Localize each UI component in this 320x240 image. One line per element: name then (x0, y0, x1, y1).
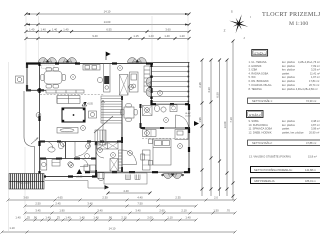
svg-text:2.45: 2.45 (55, 202, 61, 206)
svg-text:1.40: 1.40 (40, 27, 46, 31)
svg-text:ETAŽA 2: ETAŽA 2 (249, 112, 261, 117)
svg-text:1.40: 1.40 (29, 27, 35, 31)
svg-text:8×17,2/28: 8×17,2/28 (18, 180, 31, 184)
svg-text:4. RADNA SOBA: 4. RADNA SOBA (249, 71, 269, 75)
svg-text:±0,00: ±0,00 (76, 176, 83, 179)
svg-text:.70: .70 (226, 209, 230, 213)
svg-text:+0,05: +0,05 (87, 104, 94, 106)
svg-text:2.50: 2.50 (35, 202, 41, 206)
svg-text:1.40: 1.40 (79, 216, 85, 220)
svg-text:ker. pločice: ker. pločice (282, 64, 296, 68)
svg-text:1.50: 1.50 (213, 209, 219, 213)
svg-text:2.60: 2.60 (159, 209, 165, 213)
svg-text:3. IZBA: 3. IZBA (249, 68, 258, 72)
svg-text:2.35: 2.35 (175, 196, 181, 200)
svg-text:parket: parket (282, 127, 289, 131)
svg-text:20,74 m²: 20,74 m² (309, 83, 319, 87)
svg-text:ETAŽA 1: ETAŽA 1 (255, 51, 267, 56)
svg-text:2.10: 2.10 (121, 216, 127, 220)
svg-text:1.96: 1.96 (198, 117, 202, 123)
svg-text:3.40: 3.40 (135, 209, 141, 213)
svg-text:M 1:100: M 1:100 (289, 21, 308, 27)
svg-text:186,01 m: 186,01 m (305, 179, 316, 183)
svg-text:Z: Z (224, 28, 226, 32)
svg-text:2.30: 2.30 (102, 196, 108, 200)
svg-text:±0,00: ±0,00 (185, 116, 191, 118)
svg-text:1.40: 1.40 (185, 216, 191, 220)
svg-text:4.40: 4.40 (123, 189, 129, 193)
svg-text:9.40: 9.40 (92, 34, 98, 38)
svg-text:3.45: 3.45 (35, 209, 41, 213)
svg-text:3,08 m²: 3,08 m² (311, 127, 320, 131)
svg-text:parket: parket (282, 71, 289, 75)
svg-text:ker. pločice: ker. pločice (282, 60, 296, 64)
svg-text:parket, ker. pločice: parket, ker. pločice (282, 130, 304, 134)
svg-text:7. KUHINJA I BLAG.: 7. KUHINJA I BLAG. (249, 83, 273, 87)
svg-text:S: S (231, 10, 233, 14)
svg-text:141,88 m: 141,88 m (305, 168, 316, 172)
svg-text:ker. pločice: ker. pločice (282, 83, 296, 87)
svg-text:ker. pločice: ker. pločice (282, 79, 296, 83)
svg-text:6. DN. BORAVAK: 6. DN. BORAVAK (249, 79, 269, 83)
svg-text:12. DNEB. HODNIK: 12. DNEB. HODNIK (249, 130, 272, 134)
svg-text:.90: .90 (108, 216, 112, 220)
svg-text:4.30: 4.30 (207, 87, 211, 93)
svg-text:14.10: 14.10 (104, 10, 111, 14)
svg-text:3,29 m²: 3,29 m² (311, 68, 320, 72)
svg-text:47,88 m²: 47,88 m² (306, 141, 316, 145)
svg-text:1.40: 1.40 (52, 27, 58, 31)
svg-text:3.40: 3.40 (97, 209, 103, 213)
svg-text:6.55: 6.55 (106, 27, 112, 31)
svg-text:4.65: 4.65 (57, 196, 63, 200)
svg-text:1.40: 1.40 (45, 216, 51, 220)
svg-text:2.0: 2.0 (214, 196, 218, 200)
svg-text:3.60: 3.60 (23, 196, 29, 200)
svg-text:ULAZ: ULAZ (185, 112, 191, 115)
svg-text:1. UL. TERASA: 1. UL. TERASA (249, 60, 267, 64)
svg-text:5. WC: 5. WC (249, 75, 256, 79)
svg-text:1.15: 1.15 (133, 34, 139, 38)
svg-text:ker. pločice: ker. pločice (282, 123, 296, 127)
svg-text:3.40: 3.40 (87, 202, 93, 206)
svg-text:7,09 m²: 7,09 m² (311, 64, 320, 68)
svg-text:1.40: 1.40 (93, 216, 99, 220)
svg-text:2.00: 2.00 (147, 216, 153, 220)
svg-text:3,48 m²: 3,48 m² (311, 119, 320, 123)
svg-text:15,8 m²: 15,8 m² (308, 155, 317, 159)
svg-text:.25: .25 (26, 216, 30, 220)
svg-text:ker. pločice 4,93+4,28+3,84 m²: ker. pločice 4,93+4,28+3,84 m² (282, 87, 318, 91)
svg-text:72,30 m²: 72,30 m² (306, 99, 316, 103)
svg-text:ker. pločice: ker. pločice (282, 68, 296, 72)
svg-text:4,87 m²: 4,87 m² (311, 123, 320, 127)
svg-text:14.00: 14.00 (104, 20, 111, 24)
svg-text:1.10: 1.10 (167, 216, 173, 220)
svg-text:11,41 m²: 11,41 m² (310, 71, 320, 75)
svg-text:4.40: 4.40 (137, 196, 143, 200)
svg-text:1.10: 1.10 (9, 226, 15, 230)
svg-text:ker. pločice: ker. pločice (282, 119, 296, 123)
svg-text:13.00: 13.00 (223, 121, 227, 128)
svg-text:3.60: 3.60 (165, 27, 171, 31)
svg-text:1.40: 1.40 (63, 27, 69, 31)
svg-text:.75: .75 (56, 216, 60, 220)
svg-text:17,84 m²: 17,84 m² (309, 79, 319, 83)
svg-text:1.40: 1.40 (164, 34, 170, 38)
svg-text:.90: .90 (33, 216, 37, 220)
svg-text:GBP PRIZEMLJA:: GBP PRIZEMLJA: (254, 179, 275, 183)
svg-text:10. KUPAONICA: 10. KUPAONICA (249, 123, 269, 127)
svg-text:TLOCRT PRIZEMLJA: TLOCRT PRIZEMLJA (262, 11, 320, 18)
svg-text:4,28+4,26+1,76 m²: 4,28+4,26+1,76 m² (298, 60, 320, 64)
svg-text:6.50: 6.50 (216, 92, 220, 98)
svg-text:7.50: 7.50 (137, 202, 143, 206)
svg-text:9. SOBA: 9. SOBA (249, 119, 259, 123)
svg-text:2. HODNIK: 2. HODNIK (249, 64, 262, 68)
svg-text:1.90: 1.90 (59, 209, 65, 213)
svg-text:8. TERASA: 8. TERASA (249, 87, 262, 91)
svg-text:2.36: 2.36 (198, 82, 202, 88)
svg-text:1.40: 1.40 (65, 216, 71, 220)
svg-text:ker. pločice: ker. pločice (282, 75, 296, 79)
svg-text:2.10: 2.10 (181, 209, 187, 213)
svg-text:7.10: 7.10 (229, 117, 233, 123)
svg-text:1,97 m²: 1,97 m² (311, 75, 320, 79)
svg-text:1.40: 1.40 (15, 216, 21, 220)
svg-text:1.20: 1.20 (179, 34, 185, 38)
svg-text:14.10: 14.10 (109, 227, 116, 231)
svg-text:1.40: 1.40 (148, 34, 154, 38)
svg-text:20,90 m²: 20,90 m² (309, 130, 319, 134)
